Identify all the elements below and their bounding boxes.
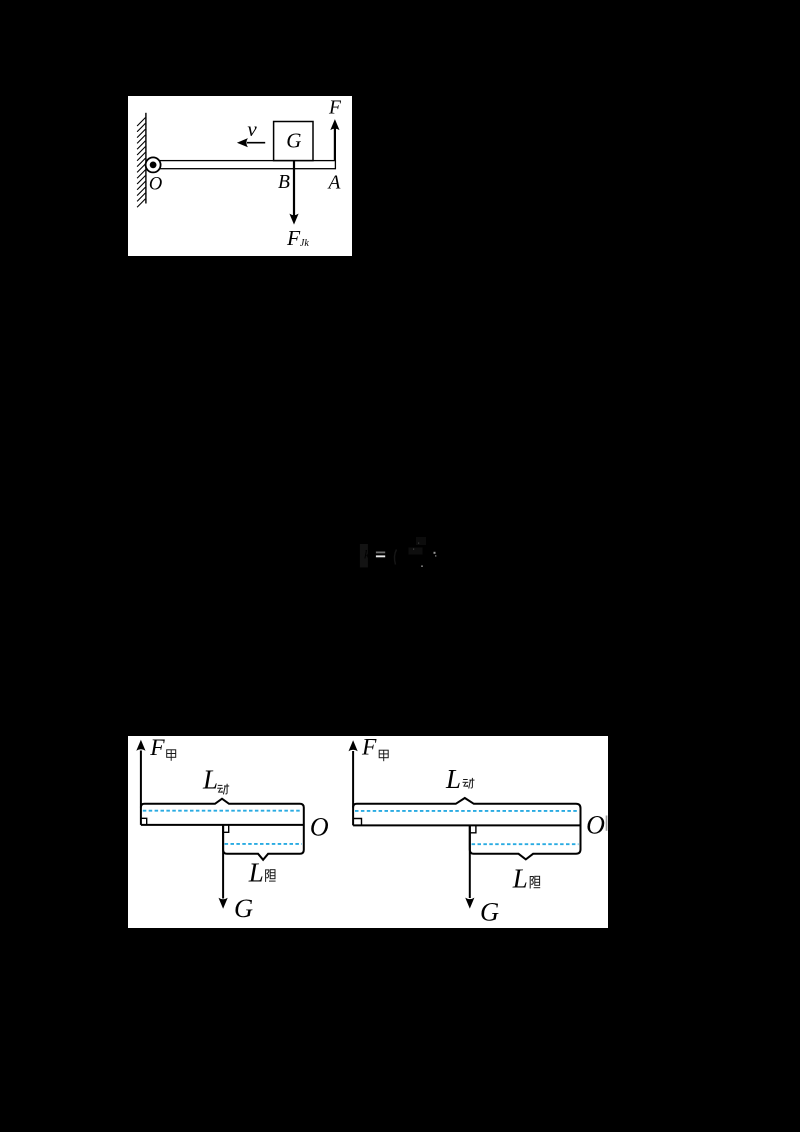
svg-text:F: F: [361, 736, 377, 761]
beam line: [141, 824, 304, 826]
svg-text:L: L: [248, 857, 264, 887]
svg-text:O: O: [149, 174, 162, 194]
svg-text:Jk: Jk: [300, 238, 309, 249]
svg-text:L: L: [202, 765, 218, 795]
velocity arrow v: [247, 142, 265, 144]
lever outline with braces right: [353, 798, 580, 859]
svg-text:G: G: [480, 896, 499, 926]
dashed lever arm L_dong right: [355, 810, 579, 812]
weight arrow G shaft: [222, 825, 224, 899]
right angle mark at G: [223, 825, 229, 832]
wall line: [145, 113, 147, 204]
wall hatching: [137, 118, 145, 208]
dashed lever arm L_zu right: [472, 843, 579, 845]
weight arrow G shaft right: [469, 825, 471, 898]
svg-text:O: O: [586, 811, 605, 840]
svg-text:A: A: [326, 173, 340, 194]
right angle mark at F right: [353, 819, 361, 826]
speckles: [409, 548, 423, 555]
faint formula: [356, 534, 446, 574]
block G box: [274, 122, 313, 161]
pivot at O: [146, 157, 161, 172]
formula dark block: [360, 544, 368, 567]
svg-text:B: B: [278, 172, 290, 193]
force arrow F_jk at B: [293, 161, 295, 217]
right angle mark at F: [141, 818, 147, 825]
svg-text:O: O: [310, 812, 329, 841]
svg-text:L: L: [512, 864, 528, 894]
svg-text:G: G: [234, 893, 253, 923]
right angle mark at G right: [470, 825, 476, 832]
svg-text:L: L: [445, 764, 461, 794]
dashed lever arm L_dong: [143, 810, 302, 812]
panel 2: two crowbar lever-arm diagrams: [128, 736, 608, 928]
svg-text:F: F: [328, 98, 342, 119]
svg-text:F: F: [149, 736, 165, 761]
beam line right: [353, 824, 580, 826]
beam OA: [153, 161, 335, 169]
equals sign: [376, 552, 385, 554]
lever outline with braces L: [141, 799, 304, 860]
faint right glyph: [394, 550, 396, 565]
force arrow F_jia shaft right: [352, 751, 354, 825]
svg-text:G: G: [286, 128, 301, 152]
svg-text:v: v: [247, 117, 257, 141]
svg-text:F: F: [286, 226, 301, 250]
dashed lever arm L_zu: [225, 843, 302, 845]
panel 1: lever on wall diagram: [128, 96, 352, 256]
force arrow F at A: [334, 129, 336, 161]
force arrow F_jia shaft: [140, 751, 142, 825]
gray tick right of O: [606, 816, 608, 831]
svg-text:k: k: [364, 547, 370, 562]
